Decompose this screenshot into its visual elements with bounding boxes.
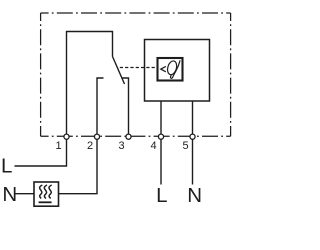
dashed mechanical link from switch to sensor — [120, 67, 158, 69]
wire terminal 5 to sensor — [192, 101, 194, 136]
switch S1 blade (contact toward terminal 3) — [113, 57, 125, 85]
terminal 1 — [64, 134, 69, 139]
hygrostat element box — [158, 58, 183, 81]
humidity sensor unit U1 (outer box) — [145, 40, 210, 102]
svg-text:2: 2 — [87, 140, 93, 152]
wire terminal 4 to sensor — [160, 101, 162, 136]
wire terminal 2 down to heater — [59, 136, 98, 194]
terminal 5 — [190, 134, 195, 139]
heating element box E1 — [34, 182, 59, 206]
sensor symbol: phi (humidity) loop — [166, 60, 178, 76]
wire terminal 1 to mains L — [15, 136, 67, 166]
terminal 2 — [94, 134, 99, 139]
wire N to heater — [14, 193, 34, 195]
svg-text:L: L — [1, 155, 12, 178]
dashed enclosure (device boundary) — [41, 13, 231, 136]
heating element base bar — [39, 201, 52, 203]
wire terminal 4 down to load L — [160, 136, 162, 185]
heating element squiggle 3 — [49, 185, 52, 198]
heating element squiggle 2 — [44, 185, 47, 198]
terminal 4 — [158, 134, 163, 139]
wire terminal 5 down to load N — [192, 136, 194, 185]
wire: terminal 1 up and over to switch pivot — [67, 32, 113, 137]
fixed contact stub of terminal 2 — [97, 78, 104, 136]
svg-text:1: 1 — [55, 140, 61, 152]
terminal 3 — [126, 134, 131, 139]
svg-text:N: N — [2, 183, 17, 206]
fixed contact stub of terminal 3 — [122, 78, 129, 136]
sensor symbol: phi (humidity) sweep and tail — [170, 60, 180, 78]
svg-text:3: 3 — [118, 140, 124, 152]
svg-text:L: L — [156, 184, 167, 207]
heating element squiggle 1 — [40, 185, 43, 198]
svg-text:4: 4 — [150, 140, 156, 152]
svg-text:5: 5 — [182, 140, 188, 152]
sensor symbol: less-than sign — [161, 66, 166, 71]
svg-text:N: N — [187, 184, 202, 207]
